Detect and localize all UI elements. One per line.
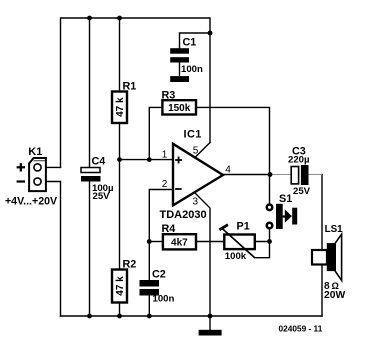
wire: S1 bottom contact down to node: [269, 229, 271, 241]
wire: ground bottom rail: [61, 315, 323, 317]
wire: output node to C3 plus plate (thin): [270, 174, 291, 176]
minus input marking: [175, 188, 181, 190]
wire: P1 right terminal to node: [255, 241, 270, 243]
wire: K1 minus terminal down to ground rail: [46, 182, 61, 317]
wire: C4 branch from top rail: [89, 18, 91, 168]
svg-text:3: 3: [193, 196, 199, 207]
resistor R4: [162, 223, 197, 249]
wire: pin 3 diagonal and drop to ground rail: [196, 194, 211, 317]
wire: R3 right to output node: [196, 107, 270, 174]
capacitor C3: [288, 146, 311, 197]
svg-text:220µ: 220µ: [288, 155, 310, 166]
node: R2 ground junction: [117, 314, 122, 319]
node: bias node R1/R2/pin1: [117, 157, 122, 162]
plus input marking: [175, 157, 182, 164]
svg-text:R2: R2: [123, 259, 137, 271]
wire: C2 bottom to ground rail: [148, 296, 150, 317]
svg-text:1: 1: [162, 150, 168, 161]
K1 plus sign: [17, 163, 25, 171]
svg-text:100n: 100n: [153, 294, 175, 305]
wire: R3 left leg down to pin1 node: [149, 107, 162, 159]
K1 minus sign: [17, 180, 25, 182]
node: R1 top rail junction: [117, 16, 122, 21]
resistor R3: [162, 89, 197, 114]
wire: R2 bottom to ground rail: [119, 303, 121, 317]
svg-text:100n: 100n: [181, 64, 203, 75]
resistor R1: [112, 81, 136, 124]
svg-text:S1: S1: [279, 193, 292, 205]
wire: bias node to pin 1: [120, 159, 173, 161]
svg-text:47 k: 47 k: [115, 97, 126, 117]
resistor R2: [112, 259, 136, 303]
node: C1 branch junction: [208, 31, 213, 36]
wire: pin 2 left leg down to R4 node: [149, 190, 172, 242]
node: P1/S1 junction: [267, 239, 272, 244]
wire: K1 plus terminal to rail: [46, 166, 61, 168]
svg-text:C2: C2: [152, 269, 166, 281]
op-amp IC1 TDA2030: [160, 128, 232, 221]
wire: bias node to R2 top: [119, 160, 121, 270]
wire: +V top rail with left drop to K1 and right drop to pin 5: [61, 18, 211, 167]
wire: speaker branch down from C3: [321, 175, 323, 317]
svg-text:P1: P1: [237, 221, 250, 233]
svg-text:4k7: 4k7: [171, 238, 188, 249]
svg-text:IC1: IC1: [184, 128, 202, 140]
wire: C1 bottom to ground bar: [179, 63, 181, 77]
svg-text:LS1: LS1: [325, 224, 344, 235]
node: output junction: [268, 172, 273, 177]
ground bar under C1: [170, 76, 189, 82]
svg-text:C1: C1: [183, 37, 197, 49]
capacitor C1: [170, 37, 203, 76]
svg-text:K1: K1: [28, 146, 42, 158]
svg-text:R4: R4: [162, 223, 176, 235]
svg-text:TDA2030: TDA2030: [160, 209, 207, 221]
svg-text:+4V...+20V: +4V...+20V: [5, 196, 57, 208]
node: R4/C2/pin2 junction: [147, 239, 152, 244]
svg-text:25V: 25V: [93, 191, 111, 202]
svg-text:100k: 100k: [225, 251, 247, 262]
wire: R4 right to P1 left: [196, 241, 224, 243]
capacitor C2: [140, 269, 175, 305]
wire: pin 5 diagonal: [196, 143, 210, 157]
ground symbol: [199, 330, 222, 336]
svg-text:5: 5: [193, 145, 199, 156]
svg-text:R3: R3: [162, 89, 176, 101]
svg-text:47 k: 47 k: [115, 276, 126, 296]
node: C2 ground junction: [147, 314, 152, 319]
wire: C4 bottom to ground rail: [89, 182, 91, 317]
svg-text:25V: 25V: [293, 186, 311, 197]
wire: opamp output to C3: [223, 174, 270, 176]
svg-text:150k: 150k: [168, 103, 191, 114]
node: C4 top rail junction: [87, 16, 92, 21]
wire: P1 wiper tie to node: [255, 242, 270, 258]
wire: C1 branch from pin5 vertical: [180, 33, 211, 48]
capacitor C4: [81, 156, 114, 203]
wire: R1 bottom to bias node: [119, 123, 121, 160]
wire: R4 left stub: [149, 241, 163, 243]
potentiometer P1: [219, 221, 255, 263]
node: C4 ground junction: [87, 314, 92, 319]
svg-text:R1: R1: [123, 81, 137, 93]
wire: C3 minus plate to speaker corner (thin): [309, 174, 323, 176]
wire: output node down to S1 top contact: [269, 175, 271, 204]
switch S1: [267, 193, 298, 229]
svg-text:4: 4: [225, 164, 231, 175]
wire: R4 node down to C2: [148, 242, 150, 281]
loudspeaker LS1: [312, 224, 345, 301]
node: pin3 ground junction: [208, 314, 213, 319]
svg-text:024059 - 11: 024059 - 11: [279, 324, 323, 334]
wire: ground symbol stub: [209, 316, 211, 330]
svg-text:2: 2: [162, 179, 168, 190]
svg-text:C4: C4: [92, 156, 106, 168]
connector K1: [28, 146, 46, 191]
wire: R1 top to rail: [119, 18, 121, 92]
node: R3 left junction: [147, 157, 152, 162]
svg-text:20W: 20W: [324, 290, 345, 301]
